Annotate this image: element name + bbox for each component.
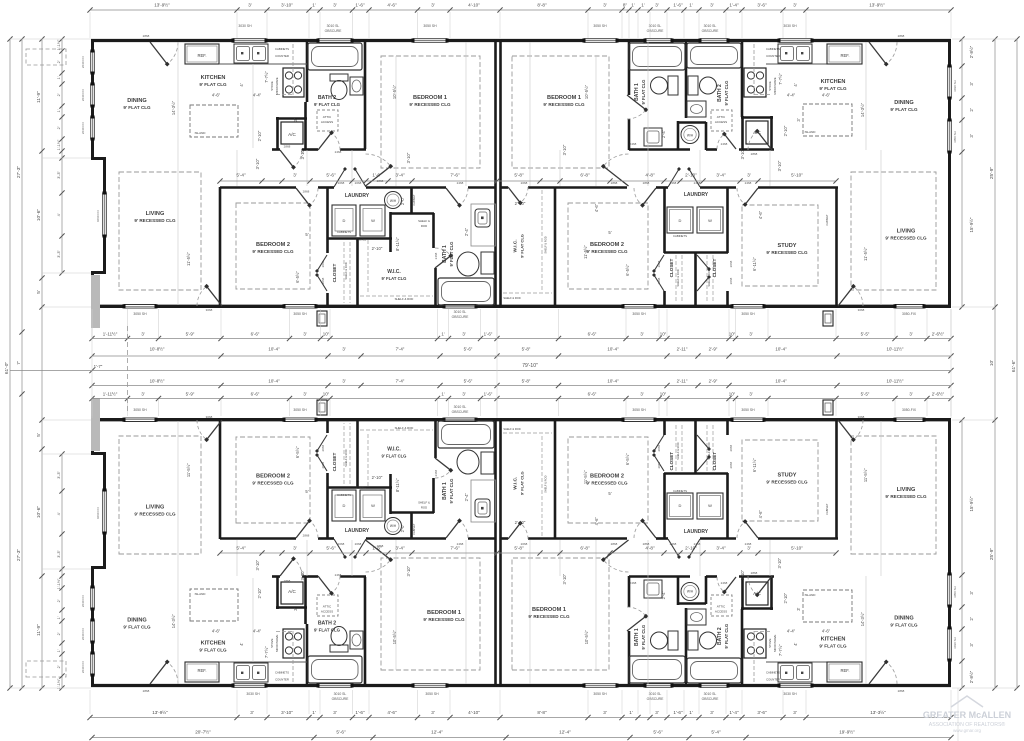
svg-text:5'-6": 5'-6": [464, 347, 473, 352]
svg-text:2': 2': [57, 126, 61, 129]
svg-text:BEDROOM 1: BEDROOM 1: [427, 610, 461, 616]
svg-text:9' FLAT CLG: 9' FLAT CLG: [449, 479, 454, 504]
svg-text:2'-0": 2'-0": [400, 196, 405, 205]
svg-text:10'-4": 10'-4": [775, 379, 787, 384]
bottom building text labels: [123, 415, 927, 693]
svg-text:9' FLAT CLG: 9' FLAT CLG: [520, 234, 525, 258]
svg-text:2'-10": 2'-10": [372, 246, 383, 251]
svg-text:2868: 2868: [751, 152, 758, 156]
svg-text:2068: 2068: [321, 260, 325, 267]
svg-text:STOVE: STOVE: [768, 638, 772, 648]
svg-text:6'-8": 6'-8": [580, 173, 590, 178]
svg-text:7'-4": 7'-4": [396, 379, 405, 384]
svg-text:MICROWAVE: MICROWAVE: [773, 77, 777, 94]
svg-text:3'-6": 3'-6": [757, 3, 767, 8]
svg-text:4': 4': [57, 213, 61, 216]
svg-text:2' WALL: 2' WALL: [356, 486, 367, 490]
svg-text:5': 5': [36, 290, 42, 294]
svg-text:ACCESS: ACCESS: [321, 610, 333, 614]
svg-text:W: W: [708, 218, 712, 223]
svg-text:2868: 2868: [377, 544, 384, 548]
svg-text:2': 2': [57, 665, 61, 668]
svg-text:1'-1½": 1'-1½": [57, 578, 61, 589]
svg-text:3': 3': [342, 379, 345, 384]
svg-text:1'-4": 1'-4": [729, 710, 739, 715]
svg-text:3010 SL: 3010 SL: [649, 24, 662, 28]
svg-text:11'-5½": 11'-5½": [863, 247, 868, 261]
svg-text:2'-8½": 2'-8½": [969, 670, 974, 683]
svg-text:3010 SL: 3010 SL: [649, 692, 662, 696]
svg-text:1': 1': [631, 3, 635, 8]
svg-text:7'-7½": 7'-7½": [264, 646, 269, 658]
svg-text:3'-4": 3'-4": [716, 546, 726, 551]
svg-text:10'-11½": 10'-11½": [887, 379, 904, 384]
svg-text:LIVING: LIVING: [146, 505, 165, 511]
svg-text:9' FLAT CLG: 9' FLAT CLG: [382, 454, 407, 459]
svg-text:8'-8": 8'-8": [537, 710, 547, 715]
svg-text:2' WALL: 2' WALL: [356, 238, 367, 242]
svg-text:2468: 2468: [457, 542, 464, 546]
svg-text:4'-6": 4'-6": [822, 629, 831, 634]
svg-text:3050 SH: 3050 SH: [423, 24, 437, 28]
svg-text:3': 3': [793, 3, 797, 8]
svg-text:1': 1': [441, 332, 444, 337]
svg-text:61'-0": 61'-0": [4, 362, 10, 375]
svg-text:CABINETS: CABINETS: [673, 234, 687, 238]
svg-text:2068: 2068: [657, 260, 661, 267]
svg-text:3': 3': [603, 3, 607, 8]
svg-text:7'-7½": 7'-7½": [264, 71, 269, 83]
svg-text:3030 SH: 3030 SH: [783, 24, 797, 28]
svg-text:4'-10": 4'-10": [468, 3, 480, 8]
svg-text:3'-3": 3'-3": [57, 171, 61, 179]
svg-text:SHELF & ROD: SHELF & ROD: [544, 475, 548, 492]
svg-text:3': 3': [293, 607, 298, 610]
svg-text:2868: 2868: [751, 571, 758, 575]
svg-text:LAUNDRY: LAUNDRY: [684, 529, 709, 535]
svg-text:ACCESS: ACCESS: [321, 120, 333, 124]
svg-text:1': 1': [57, 109, 61, 112]
svg-text:2040 FIX: 2040 FIX: [81, 89, 85, 101]
svg-text:4'-6": 4'-6": [822, 93, 831, 98]
svg-text:4'-6": 4'-6": [594, 203, 599, 212]
svg-text:3'-10": 3'-10": [300, 569, 305, 580]
svg-text:2468: 2468: [721, 142, 728, 146]
svg-text:11'-5½": 11'-5½": [186, 463, 191, 477]
svg-text:3': 3': [303, 332, 306, 337]
svg-text:CLOSET: CLOSET: [332, 452, 337, 471]
svg-text:1'-6": 1'-6": [355, 710, 365, 715]
svg-text:CABINETS: CABINETS: [337, 230, 351, 234]
svg-text:2068: 2068: [521, 181, 528, 185]
svg-text:3': 3': [462, 332, 465, 337]
svg-text:2868: 2868: [611, 542, 618, 546]
svg-text:9' FLAT CLG: 9' FLAT CLG: [123, 625, 151, 630]
svg-text:3': 3': [749, 332, 752, 337]
svg-text:2868: 2868: [143, 34, 150, 38]
svg-text:2868: 2868: [143, 689, 150, 693]
svg-text:11'-9": 11'-9": [36, 624, 42, 636]
svg-text:3068: 3068: [858, 415, 865, 419]
svg-text:7': 7': [16, 361, 22, 365]
svg-text:3'-10": 3'-10": [300, 148, 305, 159]
svg-text:2'-10": 2'-10": [257, 587, 262, 598]
svg-text:10'-5½": 10'-5½": [584, 84, 589, 99]
svg-text:5'-8": 5'-8": [514, 173, 524, 178]
svg-text:9' RECESSED CLG: 9' RECESSED CLG: [528, 614, 570, 619]
svg-text:3': 3': [747, 546, 751, 551]
svg-text:10'-6": 10'-6": [36, 209, 42, 222]
svg-text:2468: 2468: [745, 542, 752, 546]
svg-text:2': 2': [969, 108, 974, 111]
svg-text:MICROWAVE: MICROWAVE: [773, 634, 777, 651]
svg-text:5'-8": 5'-8": [522, 347, 531, 352]
svg-text:1'-6": 1'-6": [484, 332, 493, 337]
svg-text:7'-4": 7'-4": [396, 347, 405, 352]
svg-text:COUNTER: COUNTER: [275, 54, 289, 58]
svg-text:2468: 2468: [745, 181, 752, 185]
svg-text:3050 SH: 3050 SH: [741, 408, 755, 412]
svg-text:D: D: [343, 503, 346, 508]
svg-text:3050 SH: 3050 SH: [632, 408, 646, 412]
svg-text:9' FLAT CLG: 9' FLAT CLG: [819, 86, 847, 91]
svg-text:2468: 2468: [630, 142, 637, 146]
svg-text:6'-11½": 6'-11½": [752, 458, 757, 472]
svg-text:SHELF & ROD: SHELF & ROD: [395, 297, 414, 301]
middle dimension row A top: [92, 338, 951, 340]
svg-text:10'-6": 10'-6": [36, 506, 42, 519]
svg-text:3'-10": 3'-10": [562, 144, 567, 155]
svg-text:BATH 2: BATH 2: [318, 621, 336, 627]
svg-text:2040 FIX: 2040 FIX: [81, 122, 85, 134]
svg-text:5': 5': [36, 433, 42, 437]
svg-text:3': 3': [293, 546, 297, 551]
svg-text:2'-4": 2'-4": [464, 493, 469, 502]
svg-text:8'-11½": 8'-11½": [395, 478, 400, 492]
svg-text:CABINETS: CABINETS: [766, 47, 780, 51]
svg-text:2'-10": 2'-10": [783, 592, 788, 603]
svg-text:3': 3': [333, 710, 337, 715]
svg-text:D: D: [679, 218, 682, 223]
svg-text:13'-9½": 13'-9½": [152, 709, 168, 715]
svg-text:2468: 2468: [434, 252, 438, 259]
svg-text:14'-3½": 14'-3½": [171, 614, 176, 629]
svg-text:9' RECESSED CLG: 9' RECESSED CLG: [543, 102, 585, 107]
svg-text:A/C: A/C: [753, 591, 761, 596]
svg-text:9' FLAT CLG: 9' FLAT CLG: [199, 82, 227, 87]
svg-text:1'-1½": 1'-1½": [57, 139, 61, 150]
svg-text:10'-11½": 10'-11½": [887, 347, 904, 352]
svg-text:CABINET: CABINET: [825, 214, 829, 226]
svg-text:3010 SL: 3010 SL: [327, 24, 340, 28]
svg-text:4'-4": 4'-4": [787, 93, 796, 98]
svg-text:1'-1½": 1'-1½": [57, 678, 61, 689]
svg-text:3050 SH: 3050 SH: [593, 692, 607, 696]
svg-text:13'-9½": 13'-9½": [869, 2, 885, 8]
svg-text:2868: 2868: [303, 190, 310, 194]
svg-text:14'-3½": 14'-3½": [860, 102, 865, 117]
svg-text:W.I.C.: W.I.C.: [513, 477, 519, 490]
svg-text:2'-10": 2'-10": [257, 130, 262, 141]
svg-text:2868: 2868: [611, 181, 618, 185]
svg-text:4': 4': [57, 512, 61, 515]
svg-text:1': 1': [689, 710, 693, 715]
svg-text:9' FLAT CLG: 9' FLAT CLG: [724, 81, 729, 106]
svg-text:CABINET: CABINET: [412, 194, 416, 206]
svg-text:BATH 1: BATH 1: [442, 482, 448, 500]
svg-text:3030 SH: 3030 SH: [953, 637, 957, 649]
svg-text:6'-5½": 6'-5½": [625, 264, 630, 276]
svg-text:2'-10": 2'-10": [515, 520, 526, 525]
svg-text:3': 3': [250, 710, 254, 715]
svg-text:ISLAND: ISLAND: [195, 131, 207, 135]
svg-text:2468: 2468: [630, 581, 637, 585]
svg-text:3': 3': [793, 710, 797, 715]
svg-text:DINING: DINING: [894, 100, 914, 106]
svg-text:2'-11": 2'-11": [677, 379, 688, 384]
svg-text:CABINETS: CABINETS: [673, 489, 687, 493]
svg-text:3': 3': [248, 3, 252, 8]
svg-text:3010 SL: 3010 SL: [334, 692, 347, 696]
svg-text:5'-6": 5'-6": [326, 546, 336, 551]
svg-text:ACCESS: ACCESS: [715, 610, 727, 614]
svg-text:3'-3": 3'-3": [57, 471, 61, 479]
svg-text:BATH 1: BATH 1: [442, 245, 448, 263]
svg-text:1'-11½": 1'-11½": [103, 332, 118, 337]
svg-text:1'-6": 1'-6": [355, 3, 365, 8]
top margin dimension row: [90, 9, 951, 11]
svg-text:15'-9½": 15'-9½": [969, 217, 974, 232]
svg-text:2'-10": 2'-10": [685, 173, 697, 178]
svg-text:2'-4": 2'-4": [661, 591, 666, 600]
overall width dimension row: [92, 370, 951, 372]
svg-text:REF.: REF.: [197, 53, 206, 58]
svg-text:3'-3": 3'-3": [57, 250, 61, 258]
svg-text:3050 SH: 3050 SH: [133, 312, 147, 316]
svg-text:9' FLAT CLG: 9' FLAT CLG: [641, 625, 646, 650]
svg-text:9' RECESSED CLG: 9' RECESSED CLG: [134, 512, 176, 517]
svg-text:5': 5': [608, 491, 611, 496]
svg-text:14'-3½": 14'-3½": [171, 100, 176, 115]
svg-text:11'-5½": 11'-5½": [186, 252, 191, 266]
svg-text:2'-10": 2'-10": [783, 125, 788, 136]
svg-text:3': 3': [796, 118, 801, 121]
svg-text:5'-4": 5'-4": [236, 546, 246, 551]
svg-text:2'-6½": 2'-6½": [932, 332, 945, 337]
svg-text:2': 2': [57, 60, 61, 63]
svg-text:CABINETS: CABINETS: [275, 671, 289, 675]
svg-text:DINING: DINING: [894, 616, 914, 622]
svg-text:OBSCURE: OBSCURE: [647, 29, 665, 33]
svg-text:3030 SH: 3030 SH: [238, 24, 252, 28]
svg-text:4'-6": 4'-6": [594, 517, 599, 526]
svg-text:D: D: [343, 218, 346, 223]
svg-text:BEDROOM 2: BEDROOM 2: [590, 474, 624, 480]
svg-text:6'-6": 6'-6": [588, 392, 597, 397]
svg-text:3': 3': [603, 710, 607, 715]
svg-text:9' RECESSED CLG: 9' RECESSED CLG: [423, 617, 465, 622]
svg-text:1': 1': [629, 710, 633, 715]
svg-text:3'-10": 3'-10": [777, 557, 782, 568]
svg-text:REF.: REF.: [840, 53, 849, 58]
svg-text:3'-10": 3'-10": [740, 569, 745, 580]
svg-text:1'-6": 1'-6": [673, 710, 683, 715]
svg-text:3': 3': [293, 173, 297, 178]
svg-text:3': 3': [141, 332, 144, 337]
interior dimension row bottom building: [220, 552, 836, 554]
svg-text:10": 10": [660, 332, 667, 337]
svg-text:3': 3': [969, 134, 974, 137]
svg-text:CLOSET: CLOSET: [712, 258, 717, 277]
svg-text:4060 FIX: 4060 FIX: [96, 507, 100, 519]
svg-text:3050-FIX: 3050-FIX: [902, 312, 917, 316]
svg-text:SHELF & ROD: SHELF & ROD: [503, 296, 520, 300]
svg-text:2468: 2468: [670, 181, 677, 185]
svg-text:GREATER McALLEN: GREATER McALLEN: [923, 710, 1011, 720]
bottom margin row 2: [92, 737, 951, 739]
svg-text:SHELF & ROD: SHELF & ROD: [503, 427, 520, 431]
svg-text:KITCHEN: KITCHEN: [201, 641, 226, 647]
svg-text:DINING: DINING: [127, 98, 147, 104]
svg-text:1': 1': [57, 76, 61, 79]
svg-text:3050 SH: 3050 SH: [632, 312, 646, 316]
svg-text:3050 SH: 3050 SH: [293, 408, 307, 412]
svg-text:1'-1½": 1'-1½": [57, 39, 61, 50]
svg-text:7'-6": 7'-6": [450, 173, 460, 178]
svg-text:2468: 2468: [670, 542, 677, 546]
svg-text:STUDY: STUDY: [778, 473, 797, 479]
svg-text:3': 3': [969, 82, 974, 85]
middle dimension row A bottom: [92, 398, 951, 400]
svg-text:2068: 2068: [729, 462, 733, 469]
svg-text:2'-11": 2'-11": [677, 347, 688, 352]
svg-text:ATTIC: ATTIC: [717, 115, 726, 119]
svg-text:4': 4': [793, 83, 798, 86]
svg-text:3': 3': [431, 710, 435, 715]
svg-text:6'-5½": 6'-5½": [625, 453, 630, 465]
svg-text:BEDROOM 2: BEDROOM 2: [256, 474, 290, 480]
svg-text:3010 SL: 3010 SL: [704, 692, 717, 696]
svg-text:1'-6": 1'-6": [673, 3, 683, 8]
svg-text:2068: 2068: [338, 542, 345, 546]
svg-text:REF.: REF.: [197, 668, 206, 673]
svg-text:2': 2': [969, 617, 974, 620]
svg-text:4'-6": 4'-6": [758, 510, 763, 519]
svg-text:3': 3': [747, 173, 751, 178]
svg-text:SHELF & ROD: SHELF & ROD: [395, 426, 414, 430]
svg-text:1': 1': [641, 3, 645, 8]
svg-text:2468: 2468: [335, 150, 342, 154]
svg-text:W: W: [371, 218, 375, 223]
svg-text:5': 5': [305, 489, 308, 494]
svg-text:3030 SH: 3030 SH: [953, 80, 957, 92]
svg-text:4060 FIX: 4060 FIX: [96, 210, 100, 222]
svg-text:61'-6": 61'-6": [1011, 360, 1017, 373]
svg-text:4'-8": 4'-8": [645, 173, 655, 178]
svg-text:10': 10': [989, 360, 995, 366]
svg-text:10": 10": [729, 392, 736, 397]
svg-text:3': 3': [655, 710, 659, 715]
svg-text:4'-6": 4'-6": [387, 710, 397, 715]
svg-text:ISLAND: ISLAND: [195, 592, 207, 596]
svg-text:3': 3': [710, 710, 714, 715]
svg-text:12'-4": 12'-4": [559, 730, 571, 735]
svg-text:3': 3': [141, 392, 144, 397]
svg-text:2040 FIX: 2040 FIX: [81, 628, 85, 640]
svg-text:11'-5½": 11'-5½": [863, 468, 868, 482]
svg-text:10'-5½": 10'-5½": [392, 630, 397, 645]
svg-text:1': 1': [441, 392, 444, 397]
svg-text:3030 SH: 3030 SH: [246, 692, 260, 696]
svg-text:4'-6": 4'-6": [387, 3, 397, 8]
svg-text:LAUNDRY: LAUNDRY: [345, 193, 370, 199]
svg-text:3'-3": 3'-3": [57, 550, 61, 558]
interior dimension row top building: [220, 180, 836, 182]
svg-text:10'-4": 10'-4": [268, 379, 280, 384]
svg-text:5'-10": 5'-10": [791, 173, 803, 178]
svg-text:1'-7": 1'-7": [94, 364, 103, 369]
svg-text:2068: 2068: [321, 445, 325, 452]
svg-text:9' FLAT CLG: 9' FLAT CLG: [819, 644, 847, 649]
svg-text:10": 10": [729, 332, 736, 337]
svg-text:2': 2': [57, 93, 61, 96]
svg-text:CLOSET: CLOSET: [712, 452, 717, 471]
svg-text:5'-9": 5'-9": [186, 392, 195, 397]
svg-text:10'-4": 10'-4": [607, 379, 619, 384]
svg-text:DINING: DINING: [127, 618, 147, 624]
svg-text:27'-3": 27'-3": [16, 166, 22, 179]
svg-text:9' RECESSED CLG: 9' RECESSED CLG: [586, 481, 628, 486]
svg-text:5'-6": 5'-6": [464, 379, 473, 384]
svg-text:5': 5': [305, 232, 308, 237]
svg-text:ACCESS: ACCESS: [715, 120, 727, 124]
property dashed line left of buildings: [127, 326, 129, 414]
svg-text:20'-7½": 20'-7½": [195, 729, 211, 735]
svg-text:CABINETS: CABINETS: [766, 671, 780, 675]
svg-text:W/H: W/H: [687, 590, 694, 594]
svg-text:3'-10": 3'-10": [562, 573, 567, 584]
svg-text:3': 3': [640, 392, 643, 397]
svg-text:STOVE: STOVE: [768, 81, 772, 91]
svg-text:3': 3': [293, 118, 298, 121]
svg-text:2868: 2868: [303, 534, 310, 538]
svg-text:CLOSET: CLOSET: [669, 258, 674, 277]
svg-text:OBSCURE: OBSCURE: [332, 697, 350, 701]
svg-text:4'-8": 4'-8": [645, 546, 655, 551]
svg-text:SHELF &: SHELF &: [418, 219, 430, 223]
svg-text:2'-0": 2'-0": [400, 524, 405, 533]
svg-text:9' FLAT CLG: 9' FLAT CLG: [382, 276, 407, 281]
left margin dimension columns: [9, 39, 11, 688]
svg-text:BEDROOM 1: BEDROOM 1: [532, 607, 566, 613]
svg-text:3'-10": 3'-10": [406, 565, 411, 576]
svg-text:3'-10": 3'-10": [740, 148, 745, 159]
svg-text:2868: 2868: [284, 579, 291, 583]
svg-text:1': 1': [689, 3, 693, 8]
svg-text:SHELF & ROD: SHELF & ROD: [707, 269, 711, 286]
svg-text:9' FLAT CLG: 9' FLAT CLG: [123, 105, 151, 110]
svg-text:REF.: REF.: [840, 668, 849, 673]
svg-text:10'-4": 10'-4": [775, 347, 787, 352]
svg-text:STUDY: STUDY: [778, 243, 797, 249]
svg-text:ISLAND: ISLAND: [805, 593, 817, 597]
svg-text:6'-5½": 6'-5½": [295, 446, 300, 458]
svg-text:2068: 2068: [321, 277, 325, 284]
svg-text:1'-6": 1'-6": [372, 173, 382, 178]
svg-text:BATH 1: BATH 1: [634, 628, 640, 646]
svg-text:A/C: A/C: [288, 132, 296, 137]
bottom margin row 1: [90, 717, 951, 719]
